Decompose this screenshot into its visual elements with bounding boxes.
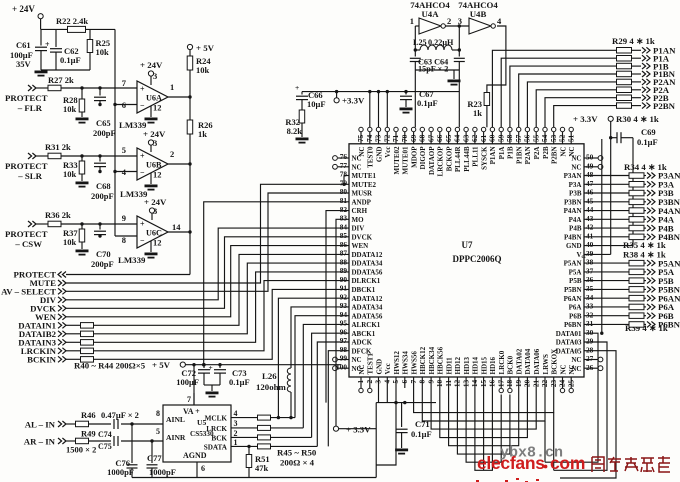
svg-text:ADATA12: ADATA12 — [352, 295, 383, 303]
resistor R27 2k — [48, 75, 74, 91]
ground (R33) — [76, 182, 89, 188]
power terminal +24V (U6A pin3) — [140, 60, 163, 85]
svg-text:0.1μF: 0.1μF — [637, 137, 658, 147]
svg-text:2: 2 — [365, 379, 374, 383]
U5 pin 5 AINR — [156, 427, 186, 442]
svg-text:57: 57 — [514, 134, 523, 142]
resistor R32 8.2k — [285, 110, 304, 137]
ground (U6C pin12) — [145, 241, 158, 259]
svg-text:17: 17 — [496, 379, 505, 387]
svg-text:66: 66 — [435, 134, 444, 142]
power terminal +24V (U6B pin3) — [143, 129, 166, 152]
node WEN label+arrow — [35, 312, 66, 322]
svg-text:28: 28 — [586, 345, 594, 354]
svg-text:63: 63 — [461, 134, 470, 142]
wire U7 pins 74/73/72 to rail — [368, 90, 389, 127]
wire U7 pin 97 ADCK to SDATA — [317, 342, 349, 446]
resistor + arrow P3AN (U7 pin 48) — [584, 171, 680, 181]
svg-text:NC: NC — [571, 163, 581, 171]
resistor R37 10k — [63, 224, 85, 249]
svg-text:P4A: P4A — [569, 216, 582, 224]
svg-text:1500 × 2: 1500 × 2 — [66, 445, 96, 455]
svg-text:37: 37 — [586, 267, 594, 276]
svg-text:P1BN: P1BN — [516, 147, 524, 165]
svg-text:MCLK: MCLK — [205, 415, 228, 423]
svg-text:NC: NC — [571, 356, 581, 364]
IC U7 DPPC2006Q body — [349, 144, 584, 377]
wire U7 pin 56 to P2AN — [527, 82, 616, 127]
svg-text:67: 67 — [426, 134, 435, 142]
wire MUTE net to U7 pins 78/79 MUTE1/MUTE2 — [66, 176, 349, 284]
resistor + arrow P4BN (U7 pin 41) — [584, 232, 680, 242]
svg-text:VA +: VA + — [183, 407, 200, 416]
svg-text:69: 69 — [409, 134, 418, 142]
svg-text:11: 11 — [444, 379, 453, 386]
svg-text:DVCK: DVCK — [352, 233, 373, 241]
svg-text:– SLR: – SLR — [17, 171, 42, 181]
svg-text:50: 50 — [586, 153, 594, 162]
svg-text:P5B: P5B — [569, 277, 582, 285]
svg-text:80: 80 — [340, 187, 348, 196]
svg-text:U7: U7 — [462, 240, 473, 250]
wire U6A output — [168, 95, 192, 98]
svg-text:NC: NC — [568, 147, 576, 157]
resistor + arrow P5BN (U7 pin 35) — [584, 285, 680, 295]
svg-text:P6BN: P6BN — [658, 320, 680, 330]
ground (R37) — [76, 250, 89, 256]
svg-text:DPPC2006Q: DPPC2006Q — [453, 254, 502, 264]
svg-text:16: 16 — [488, 379, 497, 387]
wire U7 pin 96 ABCK1 to BCK — [312, 333, 349, 437]
svg-text:120ohm: 120ohm — [256, 382, 286, 392]
resistor R46 1500 — [66, 410, 96, 427]
svg-text:25: 25 — [566, 379, 575, 387]
svg-text:R29 4 ∗ 1k: R29 4 ∗ 1k — [612, 36, 655, 46]
resistor R28 10k — [63, 88, 85, 117]
wire U7 pin 58 to P1B — [510, 66, 617, 127]
svg-text:60: 60 — [488, 134, 497, 142]
resistor R36 2k — [45, 210, 71, 227]
svg-text:68: 68 — [418, 134, 427, 142]
power terminal +3.3V (top) — [334, 92, 365, 106]
svg-text:BCKOX: BCKOX — [551, 349, 559, 375]
node DIV label+arrow — [40, 295, 66, 305]
svg-text:P5BN: P5BN — [564, 286, 582, 294]
svg-text:3: 3 — [234, 419, 238, 428]
ground (C71) — [395, 449, 408, 455]
svg-text:U6C: U6C — [146, 229, 162, 238]
svg-text:C75: C75 — [98, 442, 112, 451]
node DATAIN1 label+arrow — [18, 321, 66, 331]
svg-text:44: 44 — [586, 205, 594, 214]
svg-text:R46: R46 — [81, 410, 96, 420]
svg-text:com: com — [550, 453, 585, 473]
svg-text:HWS34: HWS34 — [402, 351, 410, 375]
svg-text:DIV: DIV — [352, 225, 365, 233]
wire DATAIB2 net to U7 pin 88 — [94, 263, 350, 334]
wire U6C output — [168, 230, 192, 233]
svg-text:88: 88 — [340, 257, 348, 266]
svg-text:R36 2k: R36 2k — [45, 210, 71, 220]
svg-text:46: 46 — [586, 188, 594, 197]
svg-text:R45 ~ R50: R45 ~ R50 — [277, 448, 317, 458]
wire U7 pin 5 HWS12 left branch — [376, 388, 397, 465]
wire U7 pin 55 to P2A — [536, 90, 616, 128]
ground (R32) — [296, 138, 309, 144]
svg-text:HBCK34: HBCK34 — [428, 346, 436, 374]
svg-text:35V: 35V — [16, 59, 32, 69]
svg-text:R40 ~ R44 200Ω×5: R40 ~ R44 200Ω×5 — [74, 361, 146, 371]
svg-text:TEST1: TEST1 — [367, 353, 375, 375]
svg-text:HD13: HD13 — [463, 357, 471, 375]
svg-text:36: 36 — [586, 275, 594, 284]
svg-text:22: 22 — [540, 379, 549, 387]
svg-text:DATA05: DATA05 — [556, 347, 582, 355]
svg-text:2: 2 — [234, 429, 238, 438]
wire U7 pin 60 to P1AN — [492, 50, 616, 127]
svg-text:8.2k: 8.2k — [287, 126, 303, 136]
U7 left pins 76-100 (stubs, numbers, labels) — [333, 152, 383, 373]
svg-text:P3A: P3A — [569, 181, 582, 189]
svg-text:P6A: P6A — [569, 304, 582, 312]
svg-text:89: 89 — [340, 266, 348, 275]
svg-text:12: 12 — [153, 170, 162, 180]
svg-text:ANDP: ANDP — [352, 198, 372, 206]
svg-text:+ 3.3V: + 3.3V — [573, 114, 598, 124]
svg-text:81: 81 — [340, 196, 348, 205]
ground (U6B pin12) — [145, 173, 158, 191]
resistor R26 1k — [187, 97, 212, 275]
power terminal +24V (U6C pin3) — [144, 197, 167, 220]
svg-text:200Ω × 4: 200Ω × 4 — [280, 458, 315, 468]
svg-text:PLL44B: PLL44B — [463, 146, 471, 172]
resistor R43 200ohm (LRCKIN) — [66, 348, 94, 354]
svg-text:U6B: U6B — [146, 161, 162, 170]
svg-text:72: 72 — [383, 134, 392, 142]
svg-text:0.47μF × 2: 0.47μF × 2 — [101, 410, 139, 420]
svg-text:12: 12 — [453, 379, 462, 387]
svg-text:87: 87 — [340, 249, 348, 258]
U5 pin 6 AGND — [197, 462, 205, 478]
wire U7 pin 94 ADATA56 to MCLK — [295, 316, 349, 418]
svg-text:NC: NC — [358, 364, 366, 374]
svg-text:35: 35 — [586, 284, 594, 293]
wire U7 pin 93 ADATA34 via L26 — [291, 307, 349, 368]
resistor + arrow P5AN (U7 pin 38) — [584, 258, 680, 268]
svg-text:C68: C68 — [96, 181, 111, 191]
svg-text:98: 98 — [340, 345, 348, 354]
svg-text:LRCK: LRCK — [206, 425, 227, 433]
svg-text:33: 33 — [586, 302, 594, 311]
IC U5 CS5330 body — [163, 405, 231, 462]
svg-text:7: 7 — [409, 379, 418, 383]
wire AV-SELECT net to U7 pin 80 MUSR — [66, 193, 349, 291]
svg-text:5: 5 — [391, 379, 400, 383]
resistor (P1B) + arrow — [617, 61, 669, 71]
svg-text:38: 38 — [586, 258, 594, 267]
resistor + arrow P4AN (U7 pin 44) — [584, 206, 680, 216]
svg-text:BCKIN: BCKIN — [27, 355, 56, 365]
resistor R22 2.4k — [56, 16, 88, 32]
wire analog ground rail — [132, 477, 376, 479]
wire long vertical bus near R30 (DATA01 pull-up) — [600, 139, 603, 335]
resistor (P2A) + arrow — [617, 85, 670, 95]
svg-text:BCK0: BCK0 — [507, 355, 515, 374]
resistor R25 10k — [87, 29, 110, 70]
capacitor C61 100uF 35V — [10, 29, 50, 70]
capacitor C62 0.1uF — [50, 29, 81, 70]
wire BCKIN net to U7 pin 91 — [94, 289, 350, 359]
svg-text:77: 77 — [340, 161, 348, 170]
svg-text:P2A: P2A — [533, 147, 541, 160]
svg-text:LM339: LM339 — [118, 255, 146, 265]
svg-text:40: 40 — [586, 240, 594, 249]
svg-text:29: 29 — [586, 337, 594, 346]
svg-text:14: 14 — [172, 222, 181, 232]
svg-text:42: 42 — [586, 223, 594, 232]
svg-text:47k: 47k — [255, 463, 269, 473]
wire U7 pin 95 ALRCK1 to LRCK — [303, 324, 349, 428]
wire U7 pin 59 to P1A — [501, 58, 616, 127]
svg-text:U4B: U4B — [470, 9, 487, 19]
svg-text:85: 85 — [340, 231, 348, 240]
svg-text:HBCK12: HBCK12 — [419, 346, 427, 374]
svg-text:71: 71 — [391, 134, 400, 142]
svg-text:95: 95 — [340, 319, 348, 328]
svg-text:ALRCK1: ALRCK1 — [352, 321, 381, 329]
svg-text:R31 2k: R31 2k — [45, 142, 71, 152]
resistor (P1BN) + arrow — [617, 69, 676, 79]
capacitor C77 1000pF — [147, 439, 176, 477]
svg-text:C74: C74 — [98, 430, 112, 439]
ground (oscillator) — [448, 70, 461, 86]
svg-text:NC: NC — [352, 163, 362, 171]
node LRCKIN label+arrow — [21, 346, 66, 356]
svg-text:31: 31 — [586, 319, 594, 328]
power terminal +3.3V (bottom) — [333, 425, 376, 435]
capacitor C72 100uF — [176, 363, 213, 387]
resistor + arrow P4A (U7 pin 43) — [584, 215, 675, 225]
svg-text:AINL: AINL — [166, 415, 185, 424]
svg-text:0.1μF: 0.1μF — [417, 98, 438, 108]
power terminal +24V (top left) — [12, 4, 43, 29]
resistor R49 1500 — [66, 429, 96, 444]
wire +5V audio rail — [185, 363, 341, 405]
wire U7 pin 3 GND to rail — [378, 388, 380, 403]
svg-text:DATA04: DATA04 — [524, 348, 532, 374]
svg-text:+: + — [140, 220, 145, 229]
svg-text:PLL44R: PLL44R — [454, 146, 462, 173]
svg-text:C70: C70 — [96, 249, 111, 259]
svg-text:27: 27 — [586, 354, 594, 363]
svg-text:P6B: P6B — [569, 312, 582, 320]
svg-text:WEN: WEN — [352, 242, 369, 250]
svg-text:TEST0: TEST0 — [367, 146, 375, 168]
bus wires U7 bottom pins nested pairs — [414, 388, 554, 470]
svg-text:ABCK1: ABCK1 — [352, 330, 376, 338]
node DVCK label+arrow — [30, 304, 66, 314]
svg-text:84: 84 — [340, 222, 348, 231]
resistor (P1AN) + arrow — [617, 46, 677, 56]
resistor + arrow P4B (U7 pin 42) — [584, 223, 674, 233]
svg-text:DATAOP: DATAOP — [428, 146, 436, 175]
svg-text:48: 48 — [586, 170, 594, 179]
svg-text:DATA01: DATA01 — [556, 330, 582, 338]
svg-text:4: 4 — [234, 409, 238, 418]
node AV – SELECT label+arrow — [1, 287, 66, 297]
svg-text:P4BN: P4BN — [658, 232, 680, 242]
svg-text:58: 58 — [505, 134, 514, 142]
wire DATA03 net (U7 pin 29 to pin 23 bus) — [554, 342, 607, 470]
resistor R51 47k — [246, 446, 269, 477]
svg-text:99: 99 — [340, 354, 348, 363]
U7 top pins 75-51 (stubs, circles, numbers, labels) — [356, 127, 576, 176]
svg-text:−: − — [140, 168, 145, 177]
svg-text:+3.3V: +3.3V — [342, 96, 365, 106]
svg-text:10k: 10k — [63, 104, 77, 114]
svg-text:34: 34 — [586, 293, 594, 302]
svg-text:23: 23 — [549, 379, 558, 387]
svg-text:86: 86 — [340, 240, 348, 249]
svg-text:+ 24V: + 24V — [144, 197, 167, 207]
svg-text:65: 65 — [444, 134, 453, 142]
resistor (P2B) + arrow — [617, 93, 669, 103]
svg-text:73: 73 — [374, 134, 383, 142]
svg-text:PLL11: PLL11 — [472, 146, 480, 167]
svg-text:0.1μF: 0.1μF — [229, 377, 250, 387]
svg-text:ADATA34: ADATA34 — [352, 304, 383, 312]
svg-text:8: 8 — [122, 235, 126, 245]
svg-text:18: 18 — [505, 379, 514, 387]
resistor + arrow P3BN (U7 pin 45) — [584, 197, 680, 207]
ground (R28) — [76, 118, 89, 124]
svg-text:DDATA56: DDATA56 — [352, 269, 383, 277]
svg-text:20: 20 — [523, 379, 532, 387]
svg-text:0.1μF: 0.1μF — [411, 429, 432, 439]
node MUTE label+arrow — [30, 278, 66, 288]
wire U7 pin 92 ADATA12 — [278, 298, 349, 417]
svg-text:C65: C65 — [96, 118, 111, 128]
wire CSW input — [36, 222, 137, 225]
svg-text:10k: 10k — [196, 65, 210, 75]
capacitor C70 200pF — [91, 224, 114, 269]
svg-text:30: 30 — [586, 328, 594, 337]
wire digital supply rail y=402.6 — [376, 403, 436, 478]
inverter U4B 74AHCO4 — [458, 0, 502, 34]
resistor + arrow P6BN (U7 pin 31) — [584, 320, 680, 330]
svg-text:HD12: HD12 — [454, 357, 462, 375]
op-amp U6A (LM339) — [119, 71, 174, 130]
svg-text:94: 94 — [340, 310, 348, 319]
capacitor C66 10uF — [295, 83, 326, 110]
resistor + arrow P5A (U7 pin 37) — [584, 267, 675, 277]
wire U7 pin 53 to P2BN — [554, 106, 617, 128]
svg-text:HD15: HD15 — [480, 357, 488, 375]
svg-text:1: 1 — [170, 82, 174, 92]
svg-text:ADCK: ADCK — [352, 339, 373, 347]
op-amp U6B (LM339) — [120, 138, 174, 199]
wire oscillator to U7 pins 69/64 — [415, 70, 459, 127]
svg-text:59: 59 — [496, 134, 505, 142]
svg-text:15: 15 — [479, 379, 488, 387]
wire DIV net to U7 pin 84 — [66, 228, 349, 300]
svg-text:MDOP: MDOP — [410, 146, 418, 168]
svg-text:LRCK0: LRCK0 — [498, 350, 506, 374]
svg-text:90: 90 — [340, 275, 348, 284]
wire DVCK net to U7 pin 85 — [66, 237, 349, 308]
svg-text:NC: NC — [568, 364, 576, 374]
wire U4A input — [415, 25, 419, 27]
svg-text:P2B: P2B — [542, 146, 550, 159]
wire FLR input — [36, 86, 137, 89]
svg-text:P3AN: P3AN — [564, 172, 582, 180]
svg-text:0.1μF: 0.1μF — [60, 55, 81, 65]
svg-text:64: 64 — [453, 134, 462, 142]
svg-text:AL – IN: AL – IN — [25, 420, 56, 430]
svg-text:55: 55 — [531, 134, 540, 142]
svg-text:P4AN: P4AN — [564, 207, 582, 215]
svg-text:BCK: BCK — [211, 434, 227, 442]
svg-text:DATA03: DATA03 — [556, 339, 582, 347]
svg-text:U4A: U4A — [421, 9, 439, 19]
svg-text:49: 49 — [586, 161, 594, 170]
svg-text:54: 54 — [540, 134, 549, 142]
svg-text:MUTE02: MUTE02 — [393, 146, 401, 175]
resistor + arrow P5B (U7 pin 36) — [584, 276, 674, 286]
svg-text:2: 2 — [447, 16, 451, 26]
svg-text:45: 45 — [586, 196, 594, 205]
svg-text:10: 10 — [435, 379, 444, 387]
svg-text:83: 83 — [340, 214, 348, 223]
svg-text:GND: GND — [375, 359, 383, 375]
svg-text:10μF: 10μF — [307, 99, 326, 109]
svg-text:6: 6 — [122, 100, 126, 110]
svg-text:13: 13 — [461, 379, 470, 387]
wire U6B output — [168, 162, 192, 165]
wire DATAIN1 net to U7 pin 87 — [94, 254, 350, 325]
node DATAIN3 label+arrow — [18, 338, 66, 348]
svg-text:BCKOP: BCKOP — [445, 146, 453, 172]
svg-text:DATA02: DATA02 — [516, 348, 524, 374]
resistor R24 10k — [187, 56, 211, 97]
capacitor C74 0.47uF (AL) — [89, 410, 164, 429]
svg-text:6: 6 — [201, 464, 205, 473]
svg-text:LRWS: LRWS — [542, 354, 550, 374]
wire WEN net to U7 pin 86 — [66, 246, 349, 317]
op-amp U6C (LM339) — [118, 206, 181, 265]
svg-text:DIGOP: DIGOP — [419, 146, 427, 170]
watermark red ticks — [476, 478, 539, 482]
svg-text:HBCK56: HBCK56 — [437, 346, 445, 374]
svg-text:100: 100 — [336, 362, 347, 371]
wire PROTECT net — [66, 274, 190, 276]
U5 pin 7 VA+ — [187, 393, 194, 405]
svg-text:AGND: AGND — [183, 451, 207, 460]
svg-text:L26: L26 — [262, 371, 277, 381]
svg-text:+ 5V: + 5V — [196, 43, 215, 53]
svg-text:+ 24V: + 24V — [12, 4, 35, 14]
svg-text:+: + — [140, 85, 145, 94]
svg-text:P2BN: P2BN — [653, 101, 676, 111]
wire DATA05 net (U7 pin 28) — [560, 351, 616, 478]
svg-text:– CSW: – CSW — [14, 239, 42, 249]
svg-text:LRCKOP: LRCKOP — [437, 146, 445, 177]
svg-text:C69: C69 — [641, 127, 656, 137]
capacitor C65 200pF — [93, 88, 116, 138]
svg-text:−: − — [140, 101, 145, 110]
svg-text:P2AN: P2AN — [524, 147, 532, 165]
resistor R42 200ohm (DATAIN3) — [66, 340, 94, 346]
